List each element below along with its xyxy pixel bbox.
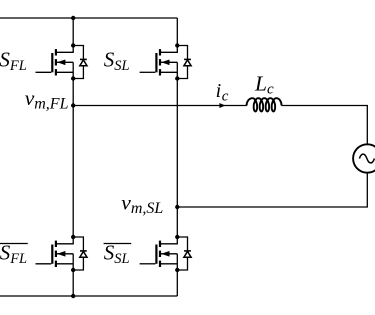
- transistor S_SL-bar: [140, 235, 192, 272]
- svg-text:Lc: Lc: [254, 71, 274, 97]
- transistor S_SL: [140, 43, 192, 80]
- wire top rail: [0, 17, 177, 19]
- wire left bus bottom: [72, 270, 74, 296]
- node v_m,FL: [71, 103, 75, 107]
- node v_m,SL: [175, 205, 179, 209]
- svg-text:SFL: SFL: [0, 48, 27, 74]
- node top rail junction: [71, 16, 75, 20]
- svg-text:SSL: SSL: [104, 241, 130, 267]
- wire v_m,FL to inductor: [73, 105, 247, 107]
- node bottom rail junction: [71, 294, 75, 298]
- svg-text:vm,SL: vm,SL: [121, 191, 163, 218]
- wire left bus top: [72, 18, 74, 46]
- transistor S_FL-bar: [35, 235, 87, 272]
- svg-text:vm,FL: vm,FL: [25, 86, 69, 113]
- transistor S_FL: [35, 43, 87, 80]
- wire v_m,SL to source bottom: [177, 173, 367, 207]
- svg-text:ic: ic: [216, 80, 229, 105]
- wire inductor to source top: [282, 106, 368, 145]
- wire right bus top: [176, 18, 178, 46]
- inductor L_c: [247, 98, 282, 111]
- wire right bus middle: [176, 79, 178, 238]
- wire right bus bottom: [176, 270, 178, 296]
- ac source V1: [353, 144, 375, 172]
- wire bottom rail: [0, 295, 177, 297]
- svg-text:SSL: SSL: [104, 48, 130, 74]
- current arrow i_c: [219, 103, 225, 108]
- svg-text:SFL: SFL: [0, 241, 27, 267]
- wire left bus middle: [72, 79, 74, 238]
